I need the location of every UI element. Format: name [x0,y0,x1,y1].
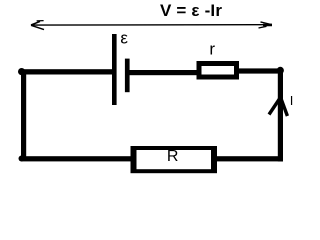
voltage arrow line [32,24,272,26]
wire bottom-left segment [21,156,131,161]
wire battery to r [129,70,197,75]
node B top-right junction [277,67,284,74]
resistor R [131,146,218,173]
resistor r [199,64,237,78]
node C bottom-left junction [19,156,25,162]
wire r to top-right corner [239,68,278,73]
label V = ε -Ir [160,1,222,20]
svg-text:ε: ε [120,29,128,48]
node A top-left junction [18,68,25,75]
svg-text:R: R [167,148,179,165]
voltage arrow left head [31,21,44,30]
wire left side [21,72,26,161]
current arrow head (up) [269,98,287,117]
battery B1 short plate [125,59,130,93]
wire bottom-right segment [216,156,278,161]
battery B1 long plate [112,34,117,105]
voltage arrow right head [259,22,273,28]
wire top-left segment [21,69,113,74]
svg-text:r: r [209,40,215,59]
svg-text:V = ε -Ir: V = ε -Ir [160,1,222,20]
svg-text:I: I [290,93,294,108]
wire right side [278,70,283,162]
